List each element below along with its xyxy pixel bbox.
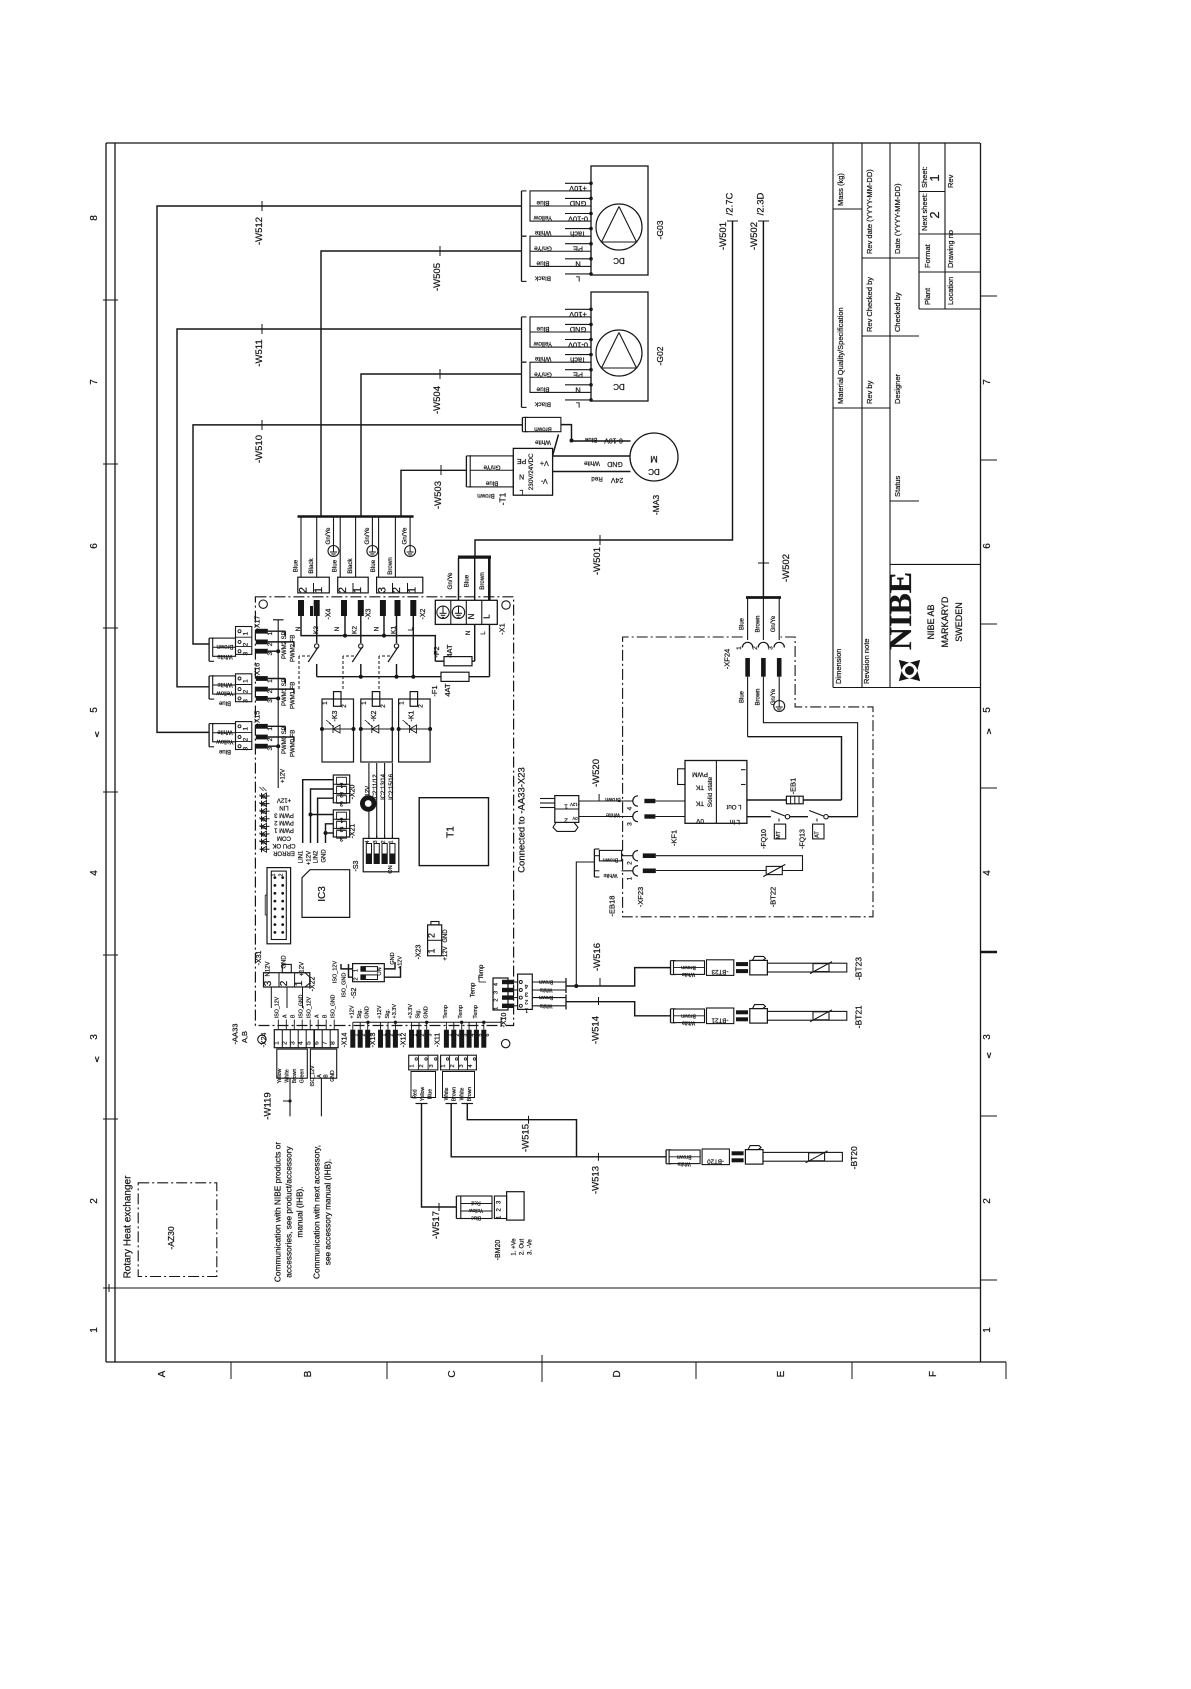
svg-text:+3.3V: +3.3V xyxy=(408,1004,414,1019)
svg-text:Black: Black xyxy=(534,401,551,408)
svg-text:Black: Black xyxy=(347,558,354,574)
svg-text:-W119: -W119 xyxy=(263,1092,274,1119)
svg-text:IC2:13/14: IC2:13/14 xyxy=(381,773,387,800)
svg-text:Material Quality/Specification: Material Quality/Specification xyxy=(836,307,845,404)
svg-text:Location: Location xyxy=(946,277,955,305)
svg-text:Brown: Brown xyxy=(477,492,495,499)
svg-text:GND: GND xyxy=(607,460,623,467)
svg-text:2: 2 xyxy=(267,642,274,646)
svg-text:Blue: Blue xyxy=(740,617,746,630)
sensor -BT20 plug xyxy=(732,1151,744,1155)
svg-text:-XF23: -XF23 xyxy=(636,887,645,907)
connector X21 xyxy=(333,810,349,837)
svg-text:0-10V: 0-10V xyxy=(568,214,588,223)
svg-text:-W502: -W502 xyxy=(749,222,760,250)
svg-text:4: 4 xyxy=(494,983,500,986)
connector -X16 terminal box xyxy=(213,676,236,694)
svg-text:1: 1 xyxy=(267,632,274,636)
connector X4 pins xyxy=(298,600,304,616)
X1 cable conductors xyxy=(458,558,460,600)
svg-text:GND: GND xyxy=(390,952,396,964)
fan motor -G03 box xyxy=(591,166,648,275)
heating element EB1 xyxy=(748,737,842,800)
cable fan-out bar xyxy=(298,515,338,517)
svg-text:-W517: -W517 xyxy=(431,1211,442,1239)
svg-text:White: White xyxy=(460,1087,466,1100)
svg-text:Gn/Ye: Gn/Ye xyxy=(325,527,332,545)
svg-text:-BT23: -BT23 xyxy=(854,957,864,980)
svg-text:ISO_GND: ISO_GND xyxy=(342,973,348,998)
svg-text:2: 2 xyxy=(267,737,274,741)
svg-text:-W501: -W501 xyxy=(592,547,603,575)
svg-text:NIBE AB: NIBE AB xyxy=(926,604,936,639)
svg-text:-S3: -S3 xyxy=(353,860,360,871)
svg-text:L: L xyxy=(483,614,492,619)
svg-text:Solid state: Solid state xyxy=(707,776,714,807)
connector X10 vertical xyxy=(493,978,508,1010)
svg-text:3: 3 xyxy=(89,1034,100,1040)
wires X20 X21 LIN xyxy=(303,780,334,843)
svg-text:6: 6 xyxy=(89,543,100,549)
svg-text:Yellow: Yellow xyxy=(277,1068,283,1083)
svg-text:PWM0 SP: PWM0 SP xyxy=(282,726,288,754)
svg-text:1: 1 xyxy=(389,840,395,843)
wire to sensor BT21 xyxy=(566,1002,671,1016)
svg-text:2: 2 xyxy=(427,933,437,938)
svg-text:2: 2 xyxy=(243,737,250,741)
wire L line xyxy=(317,676,441,678)
sensor -BT23 plug xyxy=(736,962,748,966)
page frame outer left line xyxy=(105,143,107,1362)
svg-text:Blue: Blue xyxy=(332,559,339,572)
svg-text:ISO_12V: ISO_12V xyxy=(275,996,281,1018)
svg-text:2: 2 xyxy=(298,587,310,593)
svg-text:2: 2 xyxy=(564,817,568,824)
wire W517 to BM20 xyxy=(422,1104,457,1208)
svg-text:Blue: Blue xyxy=(536,199,549,206)
svg-text:N: N xyxy=(575,386,580,395)
sensor -BT21 probe body xyxy=(767,1011,846,1020)
relay contact K1 xyxy=(396,616,398,643)
svg-text:-BT20: -BT20 xyxy=(849,1146,859,1169)
X12 sensor color boxes xyxy=(409,1055,438,1070)
page frame right line xyxy=(980,143,982,1362)
svg-text:T1: T1 xyxy=(446,826,457,838)
svg-text:N: N xyxy=(334,626,341,631)
svg-text:3: 3 xyxy=(267,699,274,703)
svg-text:SWEDEN: SWEDEN xyxy=(954,602,964,642)
svg-text:-BM20: -BM20 xyxy=(495,1240,502,1261)
svg-text:N: N xyxy=(467,613,476,619)
svg-text:ON: ON xyxy=(388,865,394,873)
svg-text:Blue: Blue xyxy=(471,1215,481,1221)
svg-text:-X13: -X13 xyxy=(370,1033,377,1048)
board corner marker right xyxy=(502,1039,510,1047)
wires below X22 xyxy=(270,987,272,1008)
svg-text:+12V: +12V xyxy=(307,851,313,865)
svg-text:Brown: Brown xyxy=(534,425,552,432)
svg-text:-F1: -F1 xyxy=(430,685,439,696)
svg-text:1: 1 xyxy=(427,948,437,953)
svg-text:Date (YYYY-MM-DD): Date (YYYY-MM-DD) xyxy=(893,183,902,254)
svg-text:-X1: -X1 xyxy=(498,623,507,635)
svg-text:N: N xyxy=(295,626,302,631)
status LEDs xyxy=(260,795,270,797)
svg-text:White: White xyxy=(682,1019,695,1025)
svg-text:LIN2: LIN2 xyxy=(314,850,320,863)
terminal block X1 xyxy=(435,600,497,624)
relay coil -K3 xyxy=(322,699,354,762)
svg-text:Rev by: Rev by xyxy=(865,380,874,404)
column reference ticks bottom xyxy=(230,1362,232,1379)
svg-text:B: B xyxy=(324,1074,330,1078)
wire red 24V to MA3 xyxy=(553,471,631,473)
svg-text:-X24: -X24 xyxy=(261,1033,268,1048)
svg-text:M: M xyxy=(650,454,658,464)
svg-text:Red: Red xyxy=(471,1200,480,1206)
wires S2 left ISO xyxy=(341,964,353,969)
svg-text:2: 2 xyxy=(341,704,348,708)
svg-text:Red: Red xyxy=(413,1089,419,1098)
svg-text:6: 6 xyxy=(314,1041,321,1045)
svg-text:Sig.: Sig. xyxy=(357,1009,363,1019)
terminal number box X4 xyxy=(298,577,330,593)
svg-text:Sig.: Sig. xyxy=(385,1009,391,1019)
svg-text:Brown: Brown xyxy=(755,615,761,632)
fan motor -G03 cable screens xyxy=(521,191,523,236)
svg-text:2: 2 xyxy=(279,873,285,876)
svg-text:+12V: +12V xyxy=(300,962,306,976)
wire W503 transformer cable xyxy=(401,470,466,515)
svg-text:ISO_GND: ISO_GND xyxy=(299,994,305,1018)
svg-text:GND: GND xyxy=(330,1070,336,1082)
svg-text:PE: PE xyxy=(517,457,527,464)
row reference ticks left xyxy=(103,299,118,301)
svg-text:L: L xyxy=(408,627,415,631)
svg-text:1: 1 xyxy=(627,876,634,880)
svg-text:24V: 24V xyxy=(610,476,623,483)
svg-text:Gn/Ye: Gn/Ye xyxy=(364,527,371,545)
wires -X15 SP FB signals xyxy=(268,725,286,727)
svg-text:-BT22: -BT22 xyxy=(769,887,778,907)
wire N bus xyxy=(301,616,435,661)
svg-text:Designer: Designer xyxy=(893,373,902,404)
svg-text:+12V: +12V xyxy=(443,946,449,960)
svg-text:see accessory manual (IHB).: see accessory manual (IHB). xyxy=(323,1159,333,1266)
svg-text:A: A xyxy=(283,1014,289,1018)
svg-text:PWM: PWM xyxy=(692,771,708,778)
svg-text:-W512: -W512 xyxy=(254,217,265,245)
svg-text:Temp: Temp xyxy=(471,982,477,997)
svg-text:-X10: -X10 xyxy=(501,1013,508,1028)
svg-text:COM: COM xyxy=(277,834,291,840)
svg-text:Brown: Brown xyxy=(539,994,553,1000)
svg-text:-X20: -X20 xyxy=(350,785,357,800)
svg-text:Gn/Ye: Gn/Ye xyxy=(771,615,777,632)
svg-text:PWM1 FB: PWM1 FB xyxy=(290,682,296,709)
svg-text:White: White xyxy=(217,729,233,735)
svg-text:1: 1 xyxy=(564,803,568,810)
svg-text:3: 3 xyxy=(627,822,634,826)
page frame top line xyxy=(106,142,980,144)
svg-text:Temp: Temp xyxy=(473,1005,479,1018)
svg-text:Drawing no: Drawing no xyxy=(946,230,955,268)
svg-text:1: 1 xyxy=(267,679,274,683)
svg-text:Rotary Heat exchanger: Rotary Heat exchanger xyxy=(123,1175,134,1279)
wire XF24 pin1 to EB1 xyxy=(747,700,749,737)
svg-text:A: A xyxy=(157,1370,168,1377)
motor MA3 symbol xyxy=(630,433,678,481)
svg-text:-G02: -G02 xyxy=(655,346,665,365)
svg-text:Black: Black xyxy=(308,558,315,574)
drawing content bottom line xyxy=(103,1287,981,1289)
svg-text:L: L xyxy=(576,275,580,284)
svg-text:Yellow: Yellow xyxy=(216,689,234,695)
svg-text:2: 2 xyxy=(339,825,343,832)
svg-text:TK: TK xyxy=(695,799,704,806)
svg-text:White: White xyxy=(682,971,695,977)
svg-text:L In: L In xyxy=(729,818,740,825)
svg-text:N: N xyxy=(466,631,472,635)
transformer T1 unit box xyxy=(513,448,552,495)
svg-text:-MA3: -MA3 xyxy=(651,495,661,516)
svg-text:2: 2 xyxy=(243,642,250,646)
svg-text:Brown: Brown xyxy=(452,1087,458,1101)
svg-text:-G03: -G03 xyxy=(655,220,665,239)
svg-text:2: 2 xyxy=(337,587,349,593)
sensor -BT20 probe body xyxy=(763,1152,842,1161)
svg-text:3: 3 xyxy=(243,652,250,656)
svg-text:4: 4 xyxy=(298,1041,305,1045)
svg-text:Brown: Brown xyxy=(755,688,761,705)
svg-text:Tach: Tach xyxy=(570,229,586,238)
svg-text:1: 1 xyxy=(352,587,364,593)
svg-text:3: 3 xyxy=(429,1064,435,1067)
fan motor -G03 impeller symbol xyxy=(596,204,642,250)
terminal number box X3 xyxy=(338,577,369,593)
svg-text:Temp: Temp xyxy=(443,1005,449,1018)
svg-text:1: 1 xyxy=(274,1041,281,1045)
svg-text:0V: 0V xyxy=(572,816,577,821)
svg-text:Sig.: Sig. xyxy=(416,1009,422,1019)
svg-text:White: White xyxy=(539,987,552,993)
svg-text:ISO_12V: ISO_12V xyxy=(333,961,339,984)
wires -X17 SP FB signals xyxy=(268,630,286,632)
svg-text:PE: PE xyxy=(573,245,583,254)
svg-text:3: 3 xyxy=(267,747,274,751)
svg-text:2: 2 xyxy=(381,840,387,843)
svg-text:1: 1 xyxy=(361,701,368,705)
wire to sensor BT23 xyxy=(566,968,671,986)
svg-text:Yellow: Yellow xyxy=(533,340,552,347)
svg-text:Blue: Blue xyxy=(584,436,597,443)
svg-text:PWM 1: PWM 1 xyxy=(274,827,294,833)
+12V feed line xyxy=(277,620,279,788)
svg-text:Brown: Brown xyxy=(603,857,619,863)
svg-text:PWM0 FB: PWM0 FB xyxy=(290,730,296,757)
svg-text:1: 1 xyxy=(243,727,250,731)
svg-text:Green: Green xyxy=(300,1069,306,1084)
svg-text:White: White xyxy=(217,681,233,687)
svg-text:∨: ∨ xyxy=(94,1054,101,1064)
IC3 chip xyxy=(302,870,350,918)
svg-text:-W515: -W515 xyxy=(521,1124,532,1152)
svg-text:Checked by: Checked by xyxy=(893,292,902,332)
svg-text:GND: GND xyxy=(365,1006,371,1018)
svg-text:accessories, see product/acces: accessories, see product/accessory xyxy=(284,1145,294,1277)
svg-text:Communication with next access: Communication with next accessory, xyxy=(312,1145,322,1279)
svg-text:Brown: Brown xyxy=(677,1153,692,1159)
svg-text:2: 2 xyxy=(418,704,425,708)
wires S2 right xyxy=(384,962,395,969)
DIP switch S3 xyxy=(363,838,399,871)
svg-text:Rev Checked by: Rev Checked by xyxy=(865,277,874,332)
svg-text:2. Out: 2. Out xyxy=(520,1238,526,1255)
svg-text:K2: K2 xyxy=(352,626,359,634)
svg-text:-BT21: -BT21 xyxy=(711,1016,728,1023)
wire W510 0-10V cable to motor MA3 xyxy=(193,425,522,644)
svg-text:-X11: -X11 xyxy=(435,1033,442,1047)
svg-text:+12V: +12V xyxy=(277,796,291,802)
svg-text:ISO_12V: ISO_12V xyxy=(310,1065,316,1087)
svg-text:Blue: Blue xyxy=(218,748,231,754)
svg-text:-AZ30: -AZ30 xyxy=(166,1226,176,1249)
svg-text:White: White xyxy=(677,1160,690,1166)
svg-text:B: B xyxy=(323,1014,329,1018)
svg-text:3: 3 xyxy=(428,1033,434,1036)
svg-text:8: 8 xyxy=(330,1041,337,1045)
svg-text:Temp: Temp xyxy=(458,1005,464,1018)
connector XF24 xyxy=(746,596,781,599)
svg-text:+12V: +12V xyxy=(570,802,580,807)
svg-text:V-: V- xyxy=(540,477,547,484)
svg-text:Blue: Blue xyxy=(536,325,549,332)
svg-text:-K1: -K1 xyxy=(409,710,416,721)
svg-text:Blue: Blue xyxy=(485,479,498,486)
ground symbol XF24 xyxy=(774,701,785,712)
svg-text:Gn/Ye: Gn/Ye xyxy=(402,527,409,545)
svg-text:2: 2 xyxy=(982,1198,993,1204)
svg-text:1: 1 xyxy=(982,1327,993,1333)
svg-text:-T1: -T1 xyxy=(498,492,508,505)
svg-text:Gn/Ye: Gn/Ye xyxy=(483,464,501,471)
svg-text:L: L xyxy=(576,401,580,410)
wire W520 PWM pair xyxy=(579,800,633,802)
svg-text:Black: Black xyxy=(534,275,551,282)
svg-text:-BT20: -BT20 xyxy=(707,1157,724,1164)
svg-text:1: 1 xyxy=(294,980,305,986)
svg-text:-W513: -W513 xyxy=(590,1166,601,1194)
svg-text:5: 5 xyxy=(89,707,100,713)
wire blue 0-10V to MA3 xyxy=(572,440,631,442)
svg-text:-X3: -X3 xyxy=(366,608,373,619)
svg-text:1: 1 xyxy=(441,1064,447,1067)
svg-text:-S2: -S2 xyxy=(351,987,358,998)
svg-text:2: 2 xyxy=(267,689,274,693)
svg-text:4: 4 xyxy=(468,1064,474,1067)
svg-text:PWM2 FB: PWM2 FB xyxy=(290,635,296,662)
title block grid xyxy=(832,143,834,688)
svg-text:Yellow: Yellow xyxy=(420,1086,426,1101)
svg-text:Brown: Brown xyxy=(605,796,621,802)
svg-text:ON: ON xyxy=(377,967,383,975)
svg-text:1: 1 xyxy=(267,727,274,731)
fan motor -G02 impeller symbol xyxy=(596,330,642,376)
svg-text:1: 1 xyxy=(339,816,343,823)
page frame bottom line xyxy=(106,1361,1006,1363)
svg-text:3: 3 xyxy=(290,1041,297,1045)
svg-text:Blue: Blue xyxy=(536,259,549,266)
svg-text:2: 2 xyxy=(494,999,500,1002)
svg-text:-W505: -W505 xyxy=(432,263,443,291)
svg-text:Rev date (YYYY-MM-DD): Rev date (YYYY-MM-DD) xyxy=(865,169,874,254)
svg-text:-X22: -X22 xyxy=(310,977,317,992)
svg-text:4: 4 xyxy=(982,870,993,876)
svg-text:4AT: 4AT xyxy=(445,644,454,658)
svg-text:White: White xyxy=(606,812,620,818)
svg-text:-W510: -W510 xyxy=(254,435,265,463)
svg-text:Mass (kg): Mass (kg) xyxy=(836,173,845,206)
svg-text:+12V: +12V xyxy=(398,956,404,969)
svg-text:NIBE: NIBE xyxy=(882,572,918,650)
svg-text:1: 1 xyxy=(339,781,343,788)
svg-text:4: 4 xyxy=(627,806,634,810)
svg-text:1: 1 xyxy=(271,873,277,876)
svg-text:-EB1: -EB1 xyxy=(789,778,798,795)
svg-text:DC: DC xyxy=(613,382,625,391)
svg-text:IC2:15/16: IC2:15/16 xyxy=(389,773,395,800)
fan motor -G03 terminal boxes xyxy=(530,191,591,221)
svg-text:Gn/Ye: Gn/Ye xyxy=(534,244,552,251)
svg-text:Brown: Brown xyxy=(479,572,486,590)
svg-text:MT: MT xyxy=(776,830,782,839)
wire W515 xyxy=(467,1104,576,1157)
svg-text:-W503: -W503 xyxy=(433,481,444,509)
svg-text:1: 1 xyxy=(322,701,329,705)
cable fan-out bar xyxy=(337,515,376,517)
mounting hole xyxy=(360,795,376,811)
fuse F1 4AT xyxy=(441,672,469,681)
svg-text:+3.3V: +3.3V xyxy=(392,1004,398,1019)
svg-text:+12V: +12V xyxy=(281,769,287,783)
svg-text:3: 3 xyxy=(494,991,500,994)
svg-text:2: 2 xyxy=(279,980,290,986)
svg-text:-F2: -F2 xyxy=(432,646,441,657)
svg-text:White: White xyxy=(217,653,233,659)
svg-text:1. +Ve: 1. +Ve xyxy=(512,1238,518,1256)
svg-text:Gn/Ye: Gn/Ye xyxy=(771,688,777,705)
svg-text:L Out: L Out xyxy=(726,803,741,810)
connector -X17 pin housing xyxy=(236,627,252,655)
svg-text:Connected to -AA33-X23: Connected to -AA33-X23 xyxy=(517,767,528,873)
cable sheath mark above X1 xyxy=(458,555,491,558)
svg-text:ISO_12V: ISO_12V xyxy=(307,996,313,1018)
svg-text:L: L xyxy=(520,488,524,495)
X24 wire color boxes xyxy=(277,1049,308,1078)
svg-text:-BT23: -BT23 xyxy=(711,968,728,975)
svg-text:LIN1: LIN1 xyxy=(299,850,305,863)
svg-text:Brown: Brown xyxy=(681,1012,696,1018)
svg-text:Blue: Blue xyxy=(218,699,231,705)
wires -X16 SP FB signals xyxy=(268,678,286,680)
svg-text:3: 3 xyxy=(263,980,274,986)
svg-text:Brown: Brown xyxy=(292,1069,298,1084)
svg-text:3: 3 xyxy=(243,747,250,751)
svg-text:3: 3 xyxy=(373,840,379,843)
svg-text:-W504: -W504 xyxy=(432,386,443,414)
svg-text:7: 7 xyxy=(322,1041,329,1045)
svg-text:-W520: -W520 xyxy=(591,759,602,787)
